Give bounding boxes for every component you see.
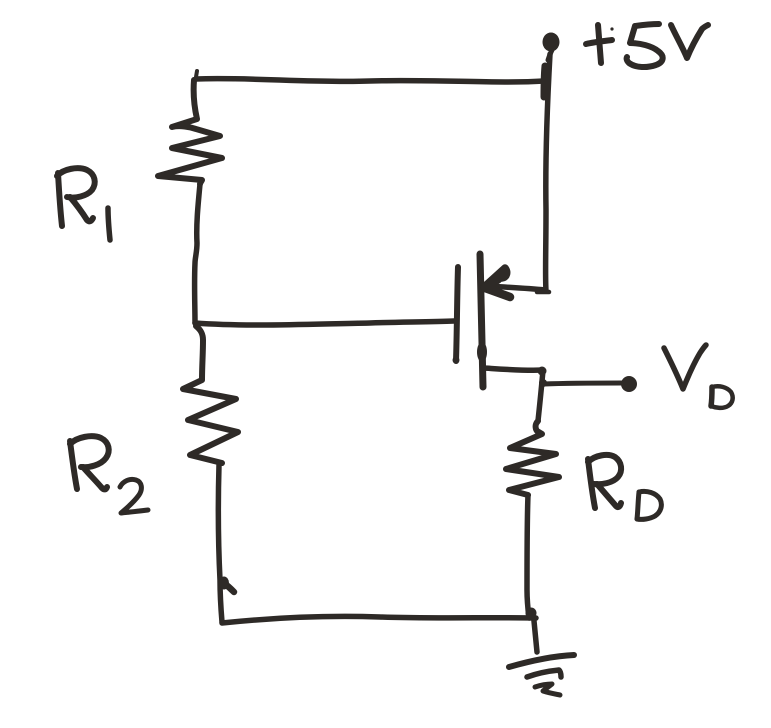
label +5V [586,24,708,67]
wire VD output [544,383,622,384]
resistor RD [506,421,559,495]
label R2 [70,436,148,513]
label VD [664,345,733,408]
node +5V supply dot [543,33,560,61]
wire RD to bottom rail [527,495,529,618]
wire top rail from R1 to +5V lead [196,66,545,97]
wire gate node to transistor gate [195,321,454,325]
wire drain to RD and VD tee [538,367,548,422]
resistor R1 [158,80,222,184]
ground [509,608,574,696]
wire R1 to gate node [195,184,200,323]
transistor M1 [453,254,550,387]
wire bottom rail [222,616,536,623]
label R1 [57,168,110,240]
wire R2 to bottom rail [218,465,234,622]
wire +5V node down to transistor source [546,54,550,291]
resistor R2 [183,326,238,463]
node VD dot [621,376,637,392]
label RD [588,455,661,519]
